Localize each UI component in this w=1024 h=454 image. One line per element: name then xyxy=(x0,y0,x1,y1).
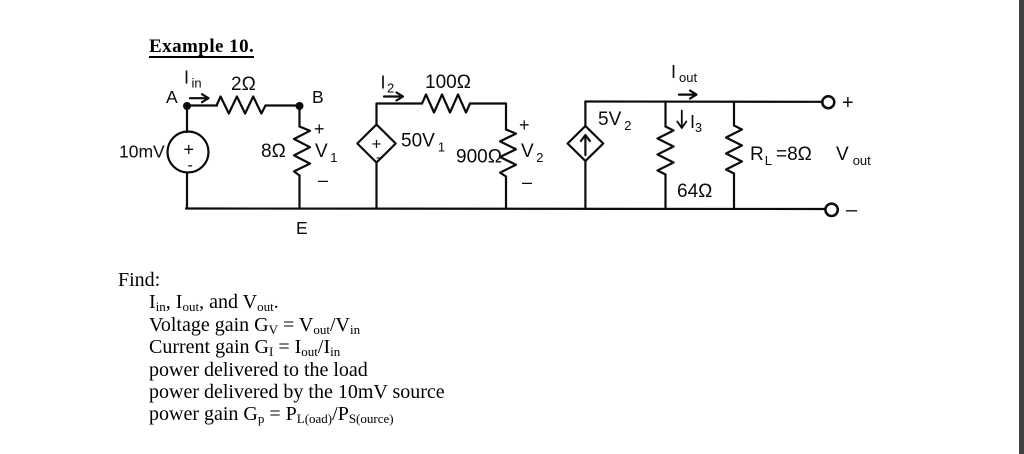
svg-text:-: - xyxy=(376,149,381,165)
terminal plus output circle xyxy=(822,96,834,108)
svg-text:B: B xyxy=(312,87,324,107)
svg-text:-: - xyxy=(188,157,193,174)
node B junction dot xyxy=(296,102,304,110)
svg-text:100Ω: 100Ω xyxy=(425,72,471,93)
svg-text:5V2: 5V2 xyxy=(598,109,631,133)
wire 5V2 bottom lead to bus xyxy=(584,161,586,209)
svg-text:V2: V2 xyxy=(521,141,543,165)
svg-text:–: – xyxy=(318,170,328,190)
arrow I2 xyxy=(384,95,401,97)
resistor 100ohm xyxy=(422,95,470,113)
wire 5V2 source top lead xyxy=(584,102,586,127)
arrow I3 downward xyxy=(677,111,686,129)
wire dependent source 50V1 top lead xyxy=(377,104,423,125)
resistor 900ohm xyxy=(500,130,516,177)
arrow Iin xyxy=(190,97,207,99)
wire node B down to 8-ohm resistor xyxy=(298,106,300,127)
svg-text:RL=8Ω: RL=8Ω xyxy=(750,144,812,168)
svg-text:+: + xyxy=(519,115,530,135)
wire 100-ohm resistor to 900-ohm branch corner xyxy=(470,104,506,130)
svg-text:+: + xyxy=(314,119,325,139)
wire 2-ohm resistor to node B xyxy=(266,104,300,106)
terminal minus output circle xyxy=(825,204,837,216)
dependent current source 5V2 diamond xyxy=(568,126,604,161)
svg-text:10mV: 10mV xyxy=(119,142,165,162)
svg-text:+: + xyxy=(842,92,854,114)
top output wire from 5V2 to plus terminal xyxy=(585,100,822,103)
svg-text:8Ω: 8Ω xyxy=(261,141,286,162)
dependent voltage source 50V1 diamond xyxy=(357,125,395,163)
voltage source Vs 10mV circle xyxy=(168,132,209,173)
wire RL branch top xyxy=(733,102,735,126)
arrow Iout xyxy=(679,93,695,95)
wire 8-ohm resistor to node E on bus xyxy=(298,176,300,209)
wire 50V1 bottom lead to bus xyxy=(375,163,377,209)
svg-text:64Ω: 64Ω xyxy=(677,181,712,202)
bottom ground bus wire xyxy=(186,207,825,210)
svg-text:I3: I3 xyxy=(690,112,702,135)
resistor 64ohm xyxy=(658,127,674,175)
title Example 10 xyxy=(149,37,254,58)
resistor RL 8ohm xyxy=(726,126,742,174)
problem statement text block xyxy=(118,269,445,426)
resistor 8ohm xyxy=(294,127,310,176)
node A junction dot xyxy=(183,102,191,110)
wire node A down to source Vs top xyxy=(186,106,188,133)
resistor R 2ohm xyxy=(217,97,266,114)
wire source Vs bottom to ground bus xyxy=(186,173,188,209)
right edge dark scrollbar strip xyxy=(1019,0,1024,454)
svg-text:Iin: Iin xyxy=(184,68,202,91)
wire 64-ohm resistor to bus xyxy=(664,175,666,209)
wire 64-ohm branch top xyxy=(664,102,666,127)
svg-text:Vout: Vout xyxy=(836,144,871,168)
svg-text:E: E xyxy=(296,218,308,238)
svg-text:Iout: Iout xyxy=(671,62,697,85)
wire RL resistor to bus xyxy=(733,174,735,209)
arrow inside 5V2 source xyxy=(584,136,586,156)
svg-text:A: A xyxy=(166,87,178,107)
svg-text:2Ω: 2Ω xyxy=(231,74,256,95)
svg-text:50V1: 50V1 xyxy=(401,131,445,155)
svg-text:–: – xyxy=(846,199,858,221)
svg-text:900Ω: 900Ω xyxy=(456,147,502,168)
svg-text:I2: I2 xyxy=(381,73,395,96)
svg-text:V1: V1 xyxy=(315,141,337,165)
svg-text:–: – xyxy=(522,172,532,192)
wire A to 2-ohm resistor xyxy=(187,104,217,106)
wire 900-ohm resistor to bus xyxy=(505,177,507,209)
